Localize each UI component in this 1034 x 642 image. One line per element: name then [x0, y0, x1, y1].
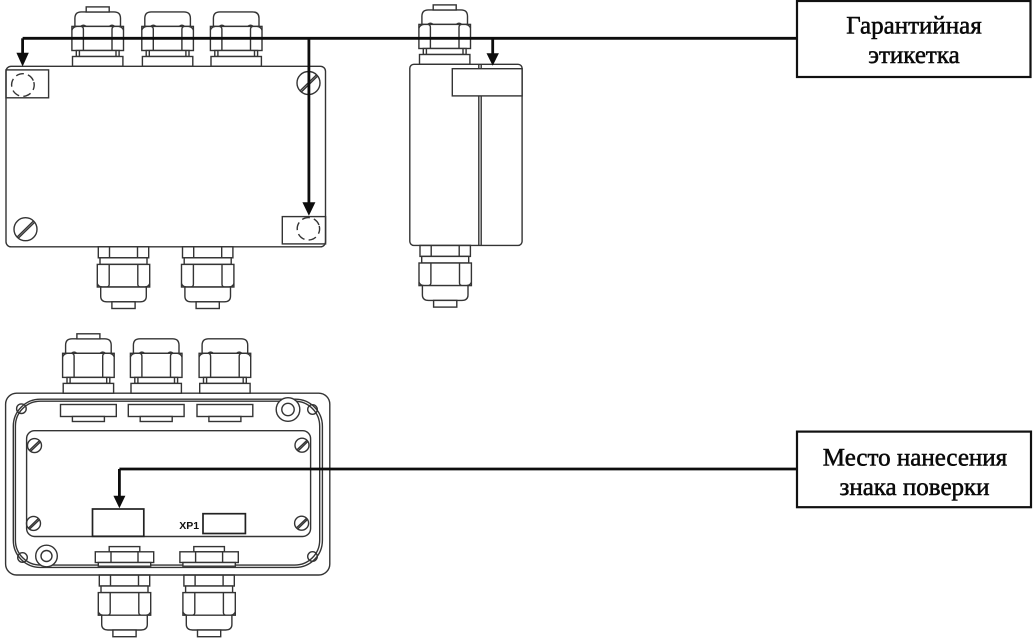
svg-text:этикетка: этикетка [868, 42, 959, 69]
svg-text:Гарантийная: Гарантийная [846, 13, 982, 40]
svg-text:XP1: XP1 [179, 520, 199, 532]
svg-text:знака поверки: знака поверки [839, 474, 989, 501]
svg-text:Место нанесения: Место нанесения [823, 444, 1008, 471]
